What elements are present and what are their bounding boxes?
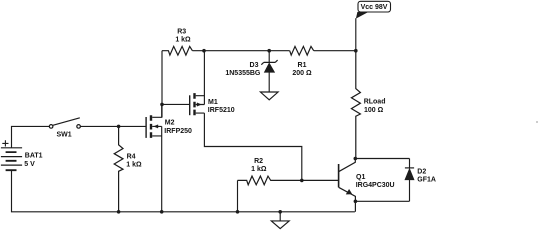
wire M2 source to bus	[161, 126, 163, 211]
wire M1 drain to R2 node	[204, 113, 301, 180]
svg-text:IRF5210: IRF5210	[208, 107, 235, 114]
wire M1 source up	[203, 51, 205, 105]
wire SW1 to M2 gate	[80, 125, 145, 127]
switch SW1	[49, 118, 80, 128]
battery BAT1	[1, 140, 22, 170]
svg-text:1N5355BG: 1N5355BG	[225, 70, 261, 77]
svg-text:D2: D2	[417, 169, 426, 176]
svg-text:R1: R1	[298, 62, 307, 69]
svg-text:M1: M1	[208, 99, 218, 106]
resistor R2	[238, 176, 339, 185]
svg-text:200 Ω: 200 Ω	[292, 70, 312, 77]
wire D2 cathode leg	[409, 159, 411, 202]
resistor RLoad	[351, 51, 360, 159]
resistor R1	[290, 46, 314, 55]
wire collector node to D2	[355, 158, 409, 160]
transistor Q1 IRG4PC30U	[339, 159, 356, 212]
wire emitter node to D2 anode	[355, 200, 410, 202]
ground below D3	[260, 92, 278, 100]
wire R2 left leg down	[237, 180, 239, 211]
wire Vcc lead	[355, 18, 357, 51]
svg-text:D3: D3	[250, 62, 259, 69]
svg-text:BAT1: BAT1	[25, 153, 43, 160]
svg-text:IRG4PC30U: IRG4PC30U	[356, 182, 395, 189]
svg-text:5 V: 5 V	[24, 161, 35, 168]
svg-text:1 kΩ: 1 kΩ	[175, 36, 191, 43]
svg-text:Q1: Q1	[356, 174, 365, 181]
svg-text:100 Ω: 100 Ω	[364, 107, 384, 114]
svg-text:1 kΩ: 1 kΩ	[126, 162, 142, 169]
svg-text:1 kΩ: 1 kΩ	[251, 166, 267, 173]
svg-text:R3: R3	[177, 28, 186, 35]
resistor R3	[162, 46, 192, 55]
svg-text:RLoad: RLoad	[364, 98, 386, 105]
Vcc 98V power flag	[356, 1, 391, 18]
svg-text:SW1: SW1	[57, 132, 72, 139]
wire battery positive to SW1	[12, 126, 50, 147]
resistor R4	[114, 126, 123, 211]
transistor M2 IRFP250	[146, 104, 162, 137]
svg-text:R2: R2	[254, 158, 263, 165]
transistor M1 IRF5210	[190, 93, 205, 115]
svg-text:IRFP250: IRFP250	[164, 128, 192, 135]
stray mark	[536, 121, 538, 123]
diode D2 GF1A	[405, 168, 414, 180]
wire D3 stub	[268, 51, 270, 92]
svg-text:R4: R4	[127, 153, 136, 160]
diode D3 zener 1N5355BG	[261, 60, 277, 72]
wire top net from R3 to Vcc junction	[192, 50, 355, 52]
ground at emitter bus	[271, 212, 289, 229]
svg-text:Vcc 98V: Vcc 98V	[361, 4, 388, 11]
svg-text:M2: M2	[165, 120, 175, 127]
wire M1 gate lead	[162, 103, 189, 105]
svg-text:GF1A: GF1A	[417, 177, 436, 184]
wire R3 left leg down to M1 gate node	[161, 51, 163, 118]
wire battery negative + ground bus	[12, 170, 355, 212]
